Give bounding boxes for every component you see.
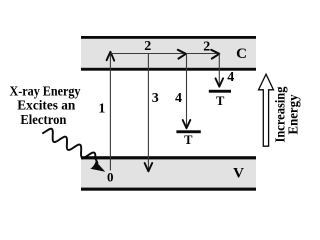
- valence band V (bottom bar): [81, 156, 256, 191]
- arrowhead right at end of first segment: [178, 50, 186, 59]
- arrowhead down on line 3: [145, 163, 153, 171]
- wire: transition 4b (vertical line down to shallow trap): [218, 54, 220, 86]
- svg-text:4: 4: [227, 70, 234, 85]
- wire: transition 2 second horizontal segment: [187, 53, 217, 55]
- svg-text:2: 2: [144, 39, 151, 54]
- svg-text:X-ray Energy: X-ray Energy: [10, 85, 81, 100]
- wire: transition 1 (vertical line up): [109, 54, 111, 171]
- photon squiggle (X-ray wavy arrow): [42, 129, 95, 159]
- svg-text:0: 0: [107, 170, 114, 185]
- wire: transition 3 (vertical line down to V band): [147, 54, 149, 171]
- svg-text:Energy: Energy: [287, 95, 302, 135]
- wire: transition 2 first horizontal segment: [110, 53, 183, 55]
- svg-text:3: 3: [152, 91, 159, 106]
- conduction band C (top bar): [81, 36, 256, 71]
- svg-text:Electron: Electron: [20, 113, 66, 128]
- shallow trap level line: [209, 90, 231, 93]
- svg-text:C: C: [236, 46, 247, 62]
- svg-text:T: T: [184, 133, 193, 147]
- increasing-energy hollow arrow: [259, 74, 274, 146]
- squiggle arrow shaft: [95, 159, 98, 164]
- caption: X-ray Energy Excites an Electron: [10, 85, 81, 128]
- arrowhead up on line 1: [107, 52, 115, 61]
- svg-text:T: T: [216, 94, 225, 108]
- svg-text:1: 1: [98, 101, 105, 116]
- wire: transition 4 (vertical line down to deep trap): [186, 54, 188, 128]
- arrowhead right at end of second segment: [211, 50, 219, 59]
- svg-text:V: V: [233, 166, 244, 182]
- arrowhead down on line 4b: [216, 78, 224, 86]
- svg-text:Excites an: Excites an: [17, 99, 75, 114]
- squiggle arrowhead (filled): [90, 161, 105, 172]
- arrowhead down on line 4: [183, 120, 191, 128]
- svg-text:2: 2: [203, 40, 210, 55]
- svg-text:4: 4: [175, 91, 182, 106]
- deep trap level line: [176, 130, 200, 133]
